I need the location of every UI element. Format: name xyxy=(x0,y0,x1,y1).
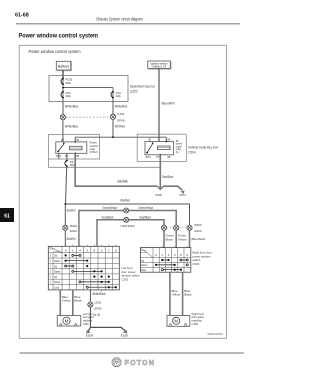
svg-text:(Blue/Red): (Blue/Red) xyxy=(191,237,205,241)
header rule xyxy=(16,23,240,25)
wire pin 86 to right relay coil xyxy=(75,137,166,142)
svg-text:terminal: terminal xyxy=(54,250,61,253)
svg-text:5006: 5006 xyxy=(156,193,163,197)
wire Blue/Black right motor xyxy=(182,272,184,315)
svg-text:C303: C303 xyxy=(121,224,128,228)
diagram border frame xyxy=(19,45,226,338)
svg-text:C302: C302 xyxy=(122,277,129,281)
svg-text:C501: C501 xyxy=(94,301,102,305)
svg-text:Blu/Blk: Blu/Blk xyxy=(118,179,129,183)
wire fuse F6 to junction xyxy=(66,166,67,204)
fuse F6 30A xyxy=(65,160,75,167)
svg-text:Gr-B: Gr-B xyxy=(93,313,100,317)
wire pin 87 down xyxy=(66,153,68,160)
svg-text:30A: 30A xyxy=(70,163,75,167)
svg-text:E303: E303 xyxy=(128,224,135,228)
connector C701 left half xyxy=(60,115,65,120)
fuse F14 10A xyxy=(111,91,121,99)
svg-text:Power window control system: Power window control system xyxy=(19,33,99,40)
connector row right: Blue/Red xyxy=(187,223,202,233)
svg-text:Switch: Switch xyxy=(49,247,55,250)
svg-text:50A: 50A xyxy=(66,81,71,85)
left switch table pin ticks xyxy=(66,245,116,247)
wire White/Red upper xyxy=(112,102,114,115)
left switch table micro labels xyxy=(50,254,52,283)
svg-text:Blu/Red: Blu/Red xyxy=(121,199,131,203)
svg-text:White/Red: White/Red xyxy=(115,105,128,109)
svg-text:Gray/Black: Gray/Black xyxy=(102,216,114,220)
wire White/Blue lower xyxy=(62,120,64,135)
ignition switch box xyxy=(148,61,171,69)
chapter tab 61 xyxy=(0,208,14,222)
svg-text:Blue/Whi: Blue/Whi xyxy=(162,102,175,106)
svg-text:WD6101/0001: WD6101/0001 xyxy=(208,332,224,336)
svg-text:(C512): (C512) xyxy=(90,150,98,154)
svg-text:C304: C304 xyxy=(83,323,89,326)
svg-text:Gray/Black: Gray/Black xyxy=(139,216,151,220)
svg-text:ED08: ED08 xyxy=(86,333,94,337)
svg-text:Down: Down xyxy=(54,260,61,263)
wire into relay pin 30 xyxy=(62,135,64,142)
footer rule xyxy=(20,352,244,354)
svg-text:Blue/Black: Blue/Black xyxy=(162,175,173,179)
coil return wire 85 to splice xyxy=(75,153,157,186)
svg-text:61-68: 61-68 xyxy=(15,13,29,19)
enclosure link wire xyxy=(49,159,161,167)
svg-text:Black: Black xyxy=(166,237,174,241)
wire Blue/Red down to right switch xyxy=(189,230,191,248)
wire Blue/Yellow right motor xyxy=(169,272,171,315)
wire inside fuse box left xyxy=(62,76,64,102)
svg-text:Yellow: Yellow xyxy=(172,293,181,297)
dashed links between connector row xyxy=(167,227,174,229)
wire Blue/Red main down xyxy=(64,204,66,225)
FOTON logo emblem xyxy=(112,358,121,367)
svg-text:B302: B302 xyxy=(70,224,77,228)
svg-text:30A: 30A xyxy=(66,94,71,98)
svg-text:Blue/Red: Blue/Red xyxy=(67,237,76,241)
svg-text:M: M xyxy=(65,319,69,324)
svg-text:B303: B303 xyxy=(195,223,202,227)
svg-text:Power window control system: Power window control system xyxy=(29,49,81,54)
wire to ground run xyxy=(89,307,91,327)
connector row right: Green/Yellow xyxy=(174,225,179,230)
fuse box (department fuse box) xyxy=(49,76,128,102)
svg-text:Yellow: Yellow xyxy=(178,237,187,241)
svg-text:C303: C303 xyxy=(193,262,200,266)
svg-text:Blue/Red: Blue/Red xyxy=(67,209,76,213)
wire relay2 pin 87 down Blue/Black xyxy=(159,155,161,189)
svg-text:EP06: EP06 xyxy=(117,118,125,122)
wire battery to fuse box xyxy=(62,70,64,79)
svg-text:Battery: Battery xyxy=(58,65,70,69)
battery B1 xyxy=(56,61,71,70)
svg-text:Chassis System circuit diagram: Chassis System circuit diagram xyxy=(96,17,143,22)
svg-text:E303: E303 xyxy=(195,229,202,233)
svg-text:Black: Black xyxy=(74,299,82,303)
svg-text:Lock: Lock xyxy=(54,286,60,289)
svg-text:Down: Down xyxy=(54,281,61,284)
svg-text:door glass: door glass xyxy=(192,315,205,319)
power window relay U1 xyxy=(56,138,87,158)
connector C302 left xyxy=(63,224,78,233)
wire White/Blue upper xyxy=(62,102,64,115)
power window regulator relay U2 xyxy=(145,138,174,160)
left switch contacts xyxy=(65,254,117,288)
svg-text:Stop: Stop xyxy=(141,269,147,272)
connector on Green/Yellow wire xyxy=(124,208,129,213)
wire Blue/White ignition feed xyxy=(158,68,160,141)
wire Green/Black down to right switch xyxy=(163,230,165,248)
fuse F04 30A xyxy=(61,91,71,99)
svg-text:E302: E302 xyxy=(70,229,77,233)
splice 5006 xyxy=(157,186,163,189)
wire Blue/Black left motor xyxy=(72,290,74,316)
svg-text:Green/Yellow: Green/Yellow xyxy=(103,206,118,210)
svg-text:position: position xyxy=(141,251,148,254)
svg-text:Black: Black xyxy=(184,293,192,297)
svg-text:M: M xyxy=(174,319,178,324)
svg-text:White/Blue: White/Blue xyxy=(65,105,79,109)
svg-text:regulator: regulator xyxy=(192,319,203,323)
svg-text:87G: 87G xyxy=(146,155,151,159)
wire Green/Yellow down to right switch xyxy=(175,230,177,248)
branch wire to second column xyxy=(63,87,113,89)
svg-text:61: 61 xyxy=(4,214,10,220)
ground run with feet xyxy=(88,327,125,331)
ground terminal ED05 xyxy=(124,331,127,333)
wire White/Black to ground xyxy=(89,290,91,302)
connector on Gray/Black wire xyxy=(121,217,136,228)
dashed connector link xyxy=(66,116,111,118)
pin 87G stub xyxy=(58,153,60,159)
right window motor M2 xyxy=(167,316,190,327)
relay enclosure left (power window relay box) xyxy=(49,135,100,160)
svg-text:(F-): (F-) xyxy=(176,151,180,154)
wire White/Red lower xyxy=(112,119,114,137)
svg-text:EP05: EP05 xyxy=(94,307,102,311)
svg-text:Green/Yellow: Green/Yellow xyxy=(139,206,154,210)
left window motor M1 xyxy=(57,316,81,326)
svg-text:(c20): (c20) xyxy=(130,90,138,94)
svg-text:Whi/Red: Whi/Red xyxy=(115,125,125,129)
connector C501 EP05 xyxy=(88,301,102,311)
relay enclosure right (vehicle body box) xyxy=(137,134,186,161)
svg-text:C701: C701 xyxy=(117,112,125,116)
svg-text:C306: C306 xyxy=(192,322,199,326)
svg-text:Department fuse box: Department fuse box xyxy=(130,84,155,88)
right switch table xyxy=(140,248,190,273)
svg-text:Right front: Right front xyxy=(192,312,205,316)
wire Gray/Black horizontal xyxy=(97,220,164,247)
svg-text:Down: Down xyxy=(54,271,61,274)
svg-text:10A: 10A xyxy=(116,94,121,98)
wire Blue/Red horizontal xyxy=(65,204,189,225)
right switch table pin ticks xyxy=(162,246,187,248)
svg-text:Yellow: Yellow xyxy=(62,299,71,303)
svg-text:White/Black: White/Black xyxy=(92,292,106,296)
right switch contacts xyxy=(155,259,188,271)
fuse FL02 50A xyxy=(61,78,73,86)
svg-text:5007: 5007 xyxy=(180,193,187,197)
connector row right: Gray/Black xyxy=(161,225,166,230)
left switch table (power window main switch) xyxy=(48,246,119,290)
svg-text:Down: Down xyxy=(141,264,148,267)
ground terminal ED08 xyxy=(87,331,90,333)
wire Green/Yellow horizontal xyxy=(79,211,176,247)
svg-text:Vehicle body key box: Vehicle body key box xyxy=(188,146,218,150)
svg-text:FOTON: FOTON xyxy=(125,358,156,367)
wire splice to terminal 5007 xyxy=(163,186,182,190)
svg-text:ED05: ED05 xyxy=(121,333,129,337)
svg-text:White/Blue: White/Blue xyxy=(65,125,79,129)
svg-text:ON(M) & ST: ON(M) & ST xyxy=(152,65,167,69)
svg-text:C504: C504 xyxy=(188,151,196,155)
wire Blue/Yellow left motor xyxy=(59,290,61,316)
connector C701 EP06 right half xyxy=(110,112,125,122)
